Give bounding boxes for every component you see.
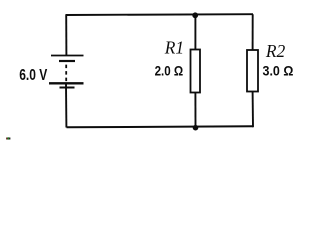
wire left upper: [65, 14, 67, 55]
svg-text:3.0 Ω: 3.0 Ω: [263, 63, 294, 79]
svg-text:6.0 V: 6.0 V: [19, 65, 48, 83]
wire bottom: [67, 126, 254, 127]
scan speckle: [6, 137, 10, 139]
node dot top: [192, 12, 198, 18]
battery B1 6.0V: [49, 56, 84, 88]
wire right upper: [252, 14, 254, 50]
node dot bottom: [193, 125, 199, 131]
svg-text:R1: R1: [164, 37, 184, 57]
wire top: [66, 13, 253, 16]
wire left lower: [65, 84, 67, 128]
wire R1 branch lower: [194, 93, 196, 128]
svg-text:R2: R2: [265, 41, 286, 61]
svg-text:2.0 Ω: 2.0 Ω: [155, 63, 184, 79]
resistor R1 box: [191, 50, 201, 93]
wire right lower: [252, 92, 254, 128]
resistor R2 box: [247, 50, 258, 92]
wire R1 branch upper: [194, 15, 196, 50]
